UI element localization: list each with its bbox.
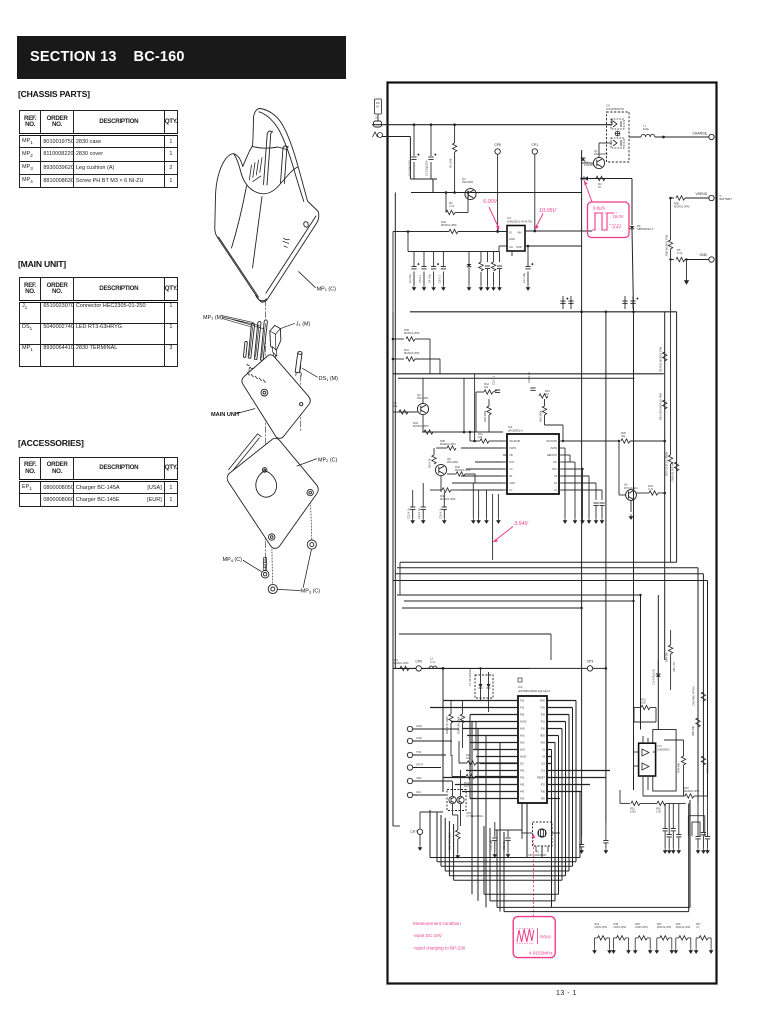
wire loop h 2 <box>445 870 569 872</box>
ground R53 gnd r <box>649 948 652 953</box>
wire R48 lead r a <box>626 937 629 939</box>
svg-text:NJM2902V: NJM2902V <box>658 748 671 751</box>
svg-text:P21: P21 <box>541 784 546 787</box>
node j c17 <box>527 245 530 248</box>
terminal pin VAA <box>407 792 412 797</box>
svg-text:AN3: AN3 <box>520 749 525 752</box>
wire sense vert 492 <box>492 494 494 560</box>
capacitor C31 18p <box>492 838 497 840</box>
ground q6 gnd <box>629 514 632 519</box>
wire cluster rail <box>445 251 499 253</box>
svg-text:MCR10-JPM: MCR10-JPM <box>684 789 700 793</box>
wire R46 lead r a <box>688 937 691 939</box>
resistor R2 4.7k <box>446 201 455 215</box>
svg-text:L1: L1 <box>643 124 646 128</box>
wire C5 top lead <box>423 252 425 267</box>
transistor Q3 2SC4081 <box>417 403 428 414</box>
node jfb <box>562 440 564 442</box>
DC IN jack J1 <box>375 99 382 114</box>
node jvcc <box>581 468 583 470</box>
ground C6 gnd <box>442 285 445 290</box>
capacitor C23 cap <box>421 507 426 509</box>
node j c1 top <box>413 123 416 126</box>
node j vsens tap <box>669 197 672 200</box>
wire q1 top <box>598 143 600 157</box>
resistor R38 MCR10-JPM <box>440 439 456 450</box>
wire IC3 rpin IC2 <box>547 763 551 765</box>
wire R47 lead r a <box>708 937 711 939</box>
wire IC1 vor line <box>525 245 582 247</box>
wire rail B <box>398 377 634 379</box>
wire pin wire VAA <box>413 794 446 796</box>
wire R3 bot <box>480 272 482 285</box>
wire r67 r <box>694 795 708 797</box>
svg-text:100: 100 <box>464 784 469 788</box>
terminal pin GND <box>407 726 412 731</box>
wire IC3 net drop 5 <box>558 736 560 895</box>
wire r41 line r <box>415 358 440 360</box>
wire base bus q4 <box>411 192 582 194</box>
wire r64 b <box>670 654 672 690</box>
resistor R18 560k <box>539 406 547 422</box>
wire r8 top <box>433 448 435 455</box>
svg-text:R16 560k: R16 560k <box>483 410 487 422</box>
wire v605 link <box>605 822 607 832</box>
wire xc rail <box>495 829 522 831</box>
resistor R24 100 <box>466 753 476 765</box>
wire ic4 in1 <box>634 751 639 753</box>
resistor R42 MCR10-JPM <box>455 465 471 476</box>
wire q6 col <box>636 492 649 494</box>
resistor R3 <box>479 262 483 271</box>
wire C22 lead b <box>412 510 414 518</box>
ground R48 gnd r <box>627 948 630 953</box>
wire oc out <box>563 440 619 442</box>
node j h7 <box>632 600 634 602</box>
svg-text:IC2: IC2 <box>541 763 545 766</box>
wire vcc r <box>563 468 583 470</box>
svg-text:CHARGE: CHARGE <box>692 131 707 135</box>
ground R7 gnd <box>492 285 495 290</box>
svg-text:C22 4.7µ: C22 4.7µ <box>407 508 411 519</box>
plug symbol <box>374 121 382 127</box>
wire left vert end <box>393 825 400 827</box>
wire IC3 net drop 3 <box>565 722 567 876</box>
wire cp7 down <box>419 835 421 845</box>
svg-text:KTD-E249R1G: KTD-E249R1G <box>467 815 484 818</box>
resistor R66 vert <box>692 686 706 706</box>
resistor R63 100k <box>448 830 460 850</box>
svg-text:CP1: CP1 <box>531 143 538 147</box>
LED DS1 (M) <box>295 353 302 373</box>
resistor R67 MCR10-JPM <box>684 786 700 798</box>
svg-text:8.4V: 8.4V <box>613 224 622 229</box>
wire r33 mid <box>640 802 657 804</box>
wire dc drop <box>574 462 576 518</box>
wire q1 link <box>582 162 594 164</box>
svg-text:GND: GND <box>699 253 707 257</box>
capacitor C2 100u/25V <box>428 154 436 160</box>
svg-text:C12 0.1: C12 0.1 <box>492 375 496 385</box>
wire reg input line b <box>458 231 507 233</box>
wire refout r <box>563 454 570 456</box>
svg-text:VIN: VIN <box>517 231 521 235</box>
wire x1 lead l <box>522 832 533 834</box>
wire R50 lead r a <box>669 937 672 939</box>
wire IC1 gnd drop <box>511 251 513 256</box>
resistor R11 22k <box>478 432 489 443</box>
node jq6 <box>618 440 620 442</box>
wire R2 right rise <box>467 193 469 213</box>
svg-text:C25 4.7µ: C25 4.7µ <box>438 508 442 519</box>
capacitor C36 0.1 <box>663 829 668 831</box>
wire d9 t <box>657 660 659 674</box>
svg-text:22k: 22k <box>393 404 398 408</box>
wire IC3 rpin P21 <box>547 784 590 786</box>
svg-text:R18 560k: R18 560k <box>539 410 543 422</box>
node j c2 top <box>430 123 433 126</box>
svg-text:Measurement condition: Measurement condition <box>413 921 461 926</box>
wire r39 line l <box>393 338 404 340</box>
resistor R51 MCR10-JPM <box>393 658 409 671</box>
ground dc gnd <box>573 518 576 523</box>
svg-text:C3 47µ: C3 47µ <box>408 274 412 283</box>
wire C26 lead <box>624 296 626 309</box>
resistor R53 CR25-JPW <box>638 936 647 940</box>
terminal VSENS <box>709 195 714 200</box>
wire IC3 rpin P60 <box>547 798 560 800</box>
wire r48 r <box>451 489 462 491</box>
terminal pads row <box>247 364 266 380</box>
wire R7 top lead <box>493 252 495 263</box>
node charge tap <box>662 136 665 139</box>
wire r43 line <box>422 431 443 433</box>
cover screw hole left <box>269 534 275 540</box>
capacitor C9 <box>497 266 502 268</box>
svg-text:IC2: IC2 <box>508 425 513 429</box>
wire rail A <box>393 373 664 375</box>
wire vert 707 <box>707 581 709 797</box>
svg-text:C17 10µ: C17 10µ <box>522 272 526 283</box>
svg-text:22k: 22k <box>484 385 489 389</box>
wire net v494 <box>499 743 501 912</box>
wire r35 r <box>666 802 686 804</box>
svg-text:INVIN: INVIN <box>510 447 517 450</box>
svg-text:µPC358G2-A: µPC358G2-A <box>508 430 523 433</box>
icom logo mark <box>283 238 290 247</box>
wire R46 lead r b <box>690 938 692 948</box>
wire R53 lead r a <box>647 937 650 939</box>
capacitor C31 cap <box>599 503 604 505</box>
ground c1b gnd <box>600 518 603 523</box>
wire R46 lead l a <box>676 937 679 939</box>
wire gl478.6 <box>478 497 480 518</box>
wire bl1 h <box>688 815 704 817</box>
capacitor C38 0.1 <box>671 829 676 831</box>
capacitor C3 <box>411 263 419 269</box>
node 5V node <box>496 230 499 233</box>
wire bl2 h <box>692 821 700 823</box>
wire loop h 0 <box>437 861 576 863</box>
resistor R39 MCR10-JPM <box>404 328 420 341</box>
wire v678 link <box>678 803 680 826</box>
wire R47 lead r b <box>710 938 712 948</box>
wire r39 drop <box>429 339 431 374</box>
svg-text:P10: P10 <box>541 728 546 731</box>
resistor R46 MCR10-JPM <box>679 936 688 940</box>
dotted screw guide bottom-left <box>271 540 274 584</box>
resistor R32 100k <box>457 714 465 734</box>
wire C25 lead b <box>443 510 445 518</box>
wire r32 t <box>462 700 464 714</box>
wire gl473.3 <box>472 497 474 518</box>
svg-text:C050 02 JPTH4: C050 02 JPTH4 <box>671 462 675 482</box>
diode D5 <box>584 176 588 181</box>
wire vert 676 mid <box>676 312 678 562</box>
capacitor C35 0.1 <box>603 841 608 843</box>
svg-text:AN1: AN1 <box>520 735 525 738</box>
wire IC3 rpin P11 <box>547 721 566 723</box>
wire loop h 8 <box>504 911 689 913</box>
resistor R12 22k <box>484 382 493 394</box>
charger case MP1 (C) outer body <box>215 108 319 302</box>
transistor Q5 2SC4081 <box>435 464 446 475</box>
schematic frame <box>388 83 717 984</box>
resistor R23 100 <box>464 774 475 788</box>
wire loop h 5 <box>484 893 559 895</box>
inductor L2 4.7u <box>429 666 437 668</box>
wire r33 feed <box>619 790 621 803</box>
wire loop vl 8 <box>503 832 505 912</box>
ground xc1 gnd <box>493 852 496 857</box>
case fin inner curve <box>259 112 304 202</box>
wire bus into d3 <box>611 119 613 125</box>
wire ctl bus 2 <box>437 667 530 669</box>
pocket bottom edge <box>234 154 298 194</box>
wire C6 top lead <box>442 252 444 267</box>
svg-text:4Vp-p: 4Vp-p <box>540 934 552 939</box>
ground C37 gnd <box>668 848 671 853</box>
svg-text:33k: 33k <box>621 434 626 438</box>
wire IC3 rpin P10 <box>547 728 562 730</box>
wire net h1 <box>400 561 677 563</box>
wire R62 lead l b <box>594 938 596 948</box>
wire main input bus <box>372 124 612 126</box>
wire vert 633 b <box>632 229 634 312</box>
IC3 uPD789F1236 microcontroller <box>518 696 547 803</box>
resistor R57 vert <box>665 451 673 476</box>
wire gl connect <box>472 483 474 497</box>
svg-text:ND-INVIN: ND-INVIN <box>546 440 557 443</box>
wire IC3 lpin AN2 <box>470 742 518 744</box>
resistor R47 4.7 <box>699 936 708 940</box>
svg-text:R1 5.6k: R1 5.6k <box>449 158 453 168</box>
wire IC3 net drop 4 <box>561 729 563 881</box>
cord symbol <box>373 132 383 138</box>
wire IC3 lpin AN3 <box>473 749 518 751</box>
wire bl2 r <box>699 822 701 836</box>
cover teardrop <box>256 471 277 497</box>
wire gl498.4 <box>497 497 499 518</box>
svg-text:GND: GND <box>510 482 516 485</box>
wire R48 lead l a <box>614 937 617 939</box>
svg-text:P11: P11 <box>541 721 546 724</box>
capacitor C25 cap <box>442 507 447 509</box>
svg-text:C31 18p: C31 18p <box>489 839 493 850</box>
resistor R30 4.7k <box>445 714 453 734</box>
resistor R50 MCR10-JPM <box>660 936 669 940</box>
wire C14 lead <box>562 296 564 309</box>
svg-text:RT: RT <box>510 475 514 478</box>
svg-text:3.54V: 3.54V <box>514 521 529 527</box>
capacitor C5 <box>421 267 426 269</box>
wire gnd line r <box>685 259 709 261</box>
wire loop vl 4 <box>453 824 455 880</box>
svg-text:MCR10-JPM: MCR10-JPM <box>393 661 409 665</box>
wire c12 link <box>493 390 498 392</box>
divider wall A <box>264 131 273 185</box>
wire loop h 4 <box>454 879 562 881</box>
wire da1 b2 <box>460 804 462 826</box>
wire fb loop drop <box>562 425 564 441</box>
wire C41 lead b <box>702 836 704 849</box>
wire loop vl 7 <box>496 830 498 907</box>
wire pin wire GND <box>413 728 459 730</box>
ground C39 gnd <box>677 848 680 853</box>
svg-text:INVIN: INVIN <box>551 447 558 450</box>
svg-text:P00: P00 <box>520 798 525 801</box>
wire bl1 r <box>704 816 706 837</box>
wire C4 bot lead <box>433 272 435 286</box>
wire loop h 7 <box>497 906 690 908</box>
wire left vert 2 <box>394 193 396 669</box>
wire c1 r <box>563 489 602 491</box>
svg-text:22k: 22k <box>478 435 483 439</box>
wire q1 top h <box>599 142 612 144</box>
waveform annotation box 9.8uS <box>588 202 630 238</box>
dual diode D7 D8 <box>475 675 493 698</box>
wire loop outer vl <box>429 810 431 858</box>
svg-text:C28 0.01: C28 0.01 <box>527 372 531 383</box>
svg-text:1SS355: 1SS355 <box>584 163 594 167</box>
wire feed 464 <box>463 378 465 432</box>
wire IC1 co line <box>499 245 507 247</box>
wire r24 r <box>476 762 518 764</box>
capacitor C22 cap <box>410 507 415 509</box>
resistor R34 vert <box>677 756 686 773</box>
wire loop outer h <box>430 857 580 859</box>
svg-text:P30: P30 <box>541 791 546 794</box>
capacitor C41 0.1 <box>701 833 706 835</box>
wire C34 lead b <box>697 840 699 849</box>
transistor Q6 DTC114EU <box>626 490 637 501</box>
wire R50 lead l a <box>657 937 660 939</box>
svg-text:MP3 (C): MP3 (C) <box>301 589 321 595</box>
node jctl605 <box>605 667 608 670</box>
resistor R64 1M <box>665 645 673 662</box>
wire C1 bot lead <box>413 162 415 179</box>
wire vsens line r <box>685 197 709 199</box>
node j r39 <box>392 338 395 341</box>
wire r23 r <box>475 776 518 778</box>
wire loop vl 2 <box>444 818 446 871</box>
wire IC3 lpin P13 <box>443 700 518 702</box>
svg-text:4.7µ: 4.7µ <box>430 660 436 664</box>
wire ic4 pins t2 <box>647 738 649 743</box>
svg-text:16.0V: 16.0V <box>613 214 624 219</box>
ground C3 gnd <box>412 285 415 290</box>
main unit PCB <box>242 355 310 438</box>
svg-text:100K: 100K <box>630 811 636 814</box>
svg-text:R68 3.3k: R68 3.3k <box>706 762 710 773</box>
wire reg input line <box>393 231 449 233</box>
resistor R35 3.3k <box>657 801 666 805</box>
wire r41 drop <box>439 359 441 374</box>
wire vert 640 <box>640 595 642 730</box>
wire input lower lead <box>382 136 411 138</box>
wire rail A drop l <box>392 373 394 375</box>
leaders MP3 (C) <box>278 549 311 590</box>
wire D1 top lead <box>468 252 470 265</box>
wire x1 lead ldrop <box>521 833 523 839</box>
svg-text:CR25-JPW: CR25-JPW <box>595 926 608 929</box>
diode D6 SB05W03A-T <box>630 224 654 231</box>
wire IC3 lpin P42 <box>455 784 518 786</box>
node j bus 581 <box>580 311 583 314</box>
svg-text:VAA: VAA <box>416 790 421 794</box>
wire C39 lead <box>678 826 680 834</box>
wire IC3 lpin P41 <box>443 777 518 779</box>
wire r64 t <box>670 630 672 645</box>
ground C7 gnd <box>486 285 489 290</box>
wire IC3 lpin AN1 <box>467 735 518 737</box>
wire gnd line ic2 <box>452 482 503 484</box>
svg-text:RESET: RESET <box>537 777 546 780</box>
dotted screw guide right <box>310 496 311 540</box>
wire vcc drop <box>582 469 584 518</box>
wire IC3 rpin VSS <box>547 742 555 744</box>
wire q3 top <box>422 378 424 403</box>
wire r31 r <box>650 707 656 709</box>
node jd7 <box>479 667 481 669</box>
svg-text:C6TCR4M91G53: C6TCR4M91G53 <box>528 854 547 857</box>
wire q6 base v <box>618 441 620 495</box>
svg-text:5.00V: 5.00V <box>483 199 498 205</box>
node j r41 <box>392 358 395 361</box>
wire c3 drop <box>588 476 590 518</box>
deck slope lines <box>232 186 263 268</box>
wire IC3 bot drop b <box>526 803 528 857</box>
case bottom tip arc <box>256 295 267 301</box>
svg-text:4.7k: 4.7k <box>449 204 455 208</box>
wire r16 bot <box>488 415 490 432</box>
wire R50 lead r b <box>671 938 673 948</box>
node j475 <box>473 440 476 443</box>
wire ct line <box>466 468 503 470</box>
wire dtc line <box>475 461 503 463</box>
ground c3 gnd <box>587 518 590 523</box>
ground R50 gnd l <box>655 948 658 953</box>
ground C4 gnd <box>432 285 435 290</box>
wire v707 link <box>707 796 709 828</box>
wire q6 col2 <box>658 492 665 494</box>
capacitor C26 <box>622 301 627 303</box>
wire chain drop 470 <box>469 432 471 441</box>
wire vert 633 a <box>631 179 633 226</box>
svg-text:DC: DC <box>376 101 380 105</box>
wire lfeed 470 <box>469 715 471 799</box>
wire r31 box <box>633 708 635 723</box>
